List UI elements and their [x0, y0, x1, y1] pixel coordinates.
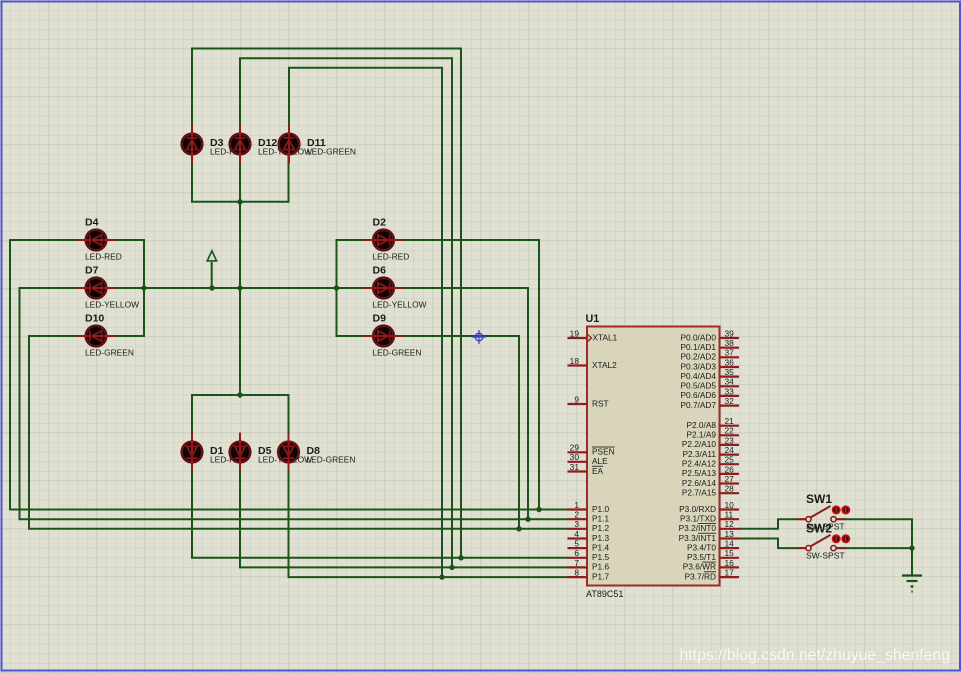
- svg-text:ALE: ALE: [592, 456, 608, 466]
- svg-text:P1.6: P1.6: [592, 562, 609, 572]
- svg-text:30: 30: [570, 452, 580, 462]
- U1 pin 7 P1.6: [568, 558, 610, 572]
- svg-text:17: 17: [725, 568, 735, 578]
- switch SW2 SW-SPST: [798, 521, 851, 560]
- svg-text:SW2: SW2: [806, 521, 832, 535]
- svg-text:P0.1/AD1: P0.1/AD1: [680, 342, 716, 352]
- svg-text:P2.2/A10: P2.2/A10: [682, 439, 717, 449]
- U1 pin 3 P1.2: [568, 519, 610, 533]
- svg-text:P3.1/TXD: P3.1/TXD: [680, 514, 716, 524]
- svg-text:P3.6/WR: P3.6/WR: [683, 562, 716, 572]
- svg-text:SW1: SW1: [806, 492, 832, 506]
- U1 pin 11 P3.1/TXD: [680, 510, 739, 524]
- U1 pin 32 P0.7/AD7: [680, 396, 739, 410]
- junction P1.5: [458, 555, 463, 560]
- svg-text:15: 15: [725, 548, 735, 558]
- svg-text:P2.3/A11: P2.3/A11: [682, 449, 716, 459]
- LED D5 (LED-YELLOW): [230, 433, 312, 472]
- svg-text:LED-RED: LED-RED: [373, 252, 410, 262]
- svg-text:3: 3: [574, 519, 579, 529]
- U1 pin 35 P0.4/AD4: [680, 367, 739, 381]
- U1 pin 36 P0.3/AD3: [680, 357, 739, 371]
- wire net P1.7: D11 cathode loop over top to x=442: [289, 68, 442, 577]
- svg-text:P0.0/AD0: P0.0/AD0: [680, 332, 716, 342]
- svg-text:P0.6/AD6: P0.6/AD6: [680, 390, 716, 400]
- svg-text:P3.0/RXD: P3.0/RXD: [679, 504, 716, 514]
- U1 pin 29 PSEN: [568, 443, 615, 457]
- svg-text:U1: U1: [586, 313, 600, 325]
- U1 pin 21 P2.0/A8: [686, 416, 739, 430]
- svg-text:26: 26: [725, 464, 735, 474]
- svg-text:33: 33: [725, 386, 735, 396]
- U1 pin 2 P1.1: [568, 510, 610, 524]
- svg-text:P1.3: P1.3: [592, 533, 609, 543]
- U1 pin 9 RST: [568, 394, 609, 408]
- U1 pin 4 P1.3: [568, 529, 610, 543]
- svg-text:34: 34: [725, 377, 735, 387]
- junction P1.2: [516, 526, 521, 531]
- U1 pin 14 P3.4/T0: [687, 539, 739, 553]
- svg-text:D10: D10: [85, 313, 104, 325]
- svg-text:LED-YELLOW: LED-YELLOW: [373, 300, 427, 310]
- U1 pin 12 P3.2/INT0: [679, 519, 739, 533]
- svg-text:18: 18: [570, 356, 580, 366]
- wire net GND: SW1 output to ground rail: [846, 519, 912, 575]
- svg-text:13: 13: [725, 529, 735, 539]
- svg-text:AT89C51: AT89C51: [586, 589, 623, 599]
- svg-text:P0.5/AD5: P0.5/AD5: [680, 381, 716, 391]
- wire net P1.1: D7 cathode to U1 pin 2: [20, 288, 568, 519]
- LED D12 (LED-YELLOW): [230, 125, 312, 164]
- svg-text:P2.4/A12: P2.4/A12: [682, 459, 717, 469]
- LED D9 (LED-GREEN): [364, 313, 421, 358]
- U1 pin 18 XTAL2: [568, 356, 618, 370]
- wire net P1.2: D9 cathode drop x=517.5: [394, 336, 519, 529]
- svg-text:28: 28: [725, 484, 735, 494]
- svg-text:SW-SPST: SW-SPST: [806, 551, 845, 561]
- svg-text:14: 14: [725, 539, 735, 549]
- svg-text:38: 38: [725, 338, 735, 348]
- U1 pin 5 P1.4: [568, 539, 610, 553]
- svg-text:XTAL2: XTAL2: [592, 360, 617, 370]
- wire net P1.7: D8 cathode to U1 pin 8: [289, 463, 568, 577]
- svg-text:19: 19: [570, 328, 580, 338]
- svg-text:1: 1: [574, 500, 579, 510]
- wire net VCC: top node bus y=202 for D3/D12/D11 anodes: [192, 155, 289, 202]
- junction P1.1: [525, 517, 530, 522]
- svg-text:11: 11: [725, 510, 734, 520]
- svg-text:D7: D7: [85, 265, 99, 277]
- svg-text:P2.0/A8: P2.0/A8: [686, 420, 716, 430]
- svg-text:39: 39: [725, 328, 735, 338]
- LED D10 (LED-GREEN): [77, 313, 134, 358]
- svg-text:PSEN: PSEN: [592, 447, 615, 457]
- svg-text:P3.3/INT1: P3.3/INT1: [679, 533, 717, 543]
- U1 pin 8 P1.7: [568, 568, 610, 582]
- svg-text:P3.7/RD: P3.7/RD: [685, 571, 716, 581]
- junction P1.7: [439, 574, 444, 579]
- wire net P1.6: D5 cathode to U1 pin 7: [240, 463, 568, 567]
- svg-text:P3.4/T0: P3.4/T0: [687, 542, 716, 552]
- svg-text:P0.3/AD3: P0.3/AD3: [680, 361, 716, 371]
- svg-text:29: 29: [570, 443, 580, 453]
- LED D6 (LED-YELLOW): [364, 265, 427, 310]
- U1 pin 16 P3.6/WR: [683, 558, 739, 572]
- wire net P1.6: D12 cathode loop over top to x=452: [240, 58, 452, 567]
- svg-text:23: 23: [725, 435, 735, 445]
- U1 pin 22 P2.1/A9: [686, 426, 739, 440]
- svg-text:24: 24: [725, 445, 735, 455]
- svg-text:P0.7/AD7: P0.7/AD7: [680, 400, 716, 410]
- svg-text:P0.2/AD2: P0.2/AD2: [680, 352, 716, 362]
- U1 pin 15 P3.5/T1: [687, 548, 739, 562]
- junction VCC/D6: [334, 285, 339, 290]
- LED D3 (LED-RED): [182, 125, 247, 164]
- svg-text:37: 37: [725, 348, 735, 358]
- svg-text:25: 25: [725, 455, 735, 465]
- svg-text:8: 8: [574, 568, 579, 578]
- svg-text:XTAL1: XTAL1: [593, 332, 618, 342]
- junction VCC/D7: [141, 285, 146, 290]
- svg-text:35: 35: [725, 367, 735, 377]
- LED D1 (LED-RED): [182, 433, 247, 472]
- U1 pin 1 P1.0: [568, 500, 610, 514]
- svg-text:D4: D4: [85, 217, 99, 229]
- svg-text:21: 21: [725, 416, 735, 426]
- svg-text:10: 10: [725, 500, 735, 510]
- junction VCC top node: [237, 199, 242, 204]
- LED D7 (LED-YELLOW): [77, 265, 140, 310]
- wire net P1.0: D2 cathode drop x=539: [394, 240, 539, 510]
- svg-text:P1.0: P1.0: [592, 504, 609, 514]
- LED D8 (LED-GREEN): [278, 433, 355, 472]
- node marker (blue origin cross): [472, 330, 486, 344]
- svg-text:P1.7: P1.7: [592, 571, 609, 581]
- svg-text:16: 16: [725, 558, 735, 568]
- switch SW1 SW-SPST: [798, 492, 851, 532]
- svg-text:7: 7: [574, 558, 579, 568]
- wire net P1.5: D1 cathode to U1 pin 6: [192, 463, 568, 558]
- svg-text:12: 12: [725, 519, 735, 529]
- wire net INT1: U1 pin 13 to SW2: [739, 539, 798, 549]
- svg-text:4: 4: [574, 529, 579, 539]
- ground: [902, 576, 922, 592]
- svg-text:LED-GREEN: LED-GREEN: [307, 455, 356, 465]
- svg-text:P2.1/A9: P2.1/A9: [686, 430, 716, 440]
- U1 pin 13 P3.3/INT1: [679, 529, 739, 543]
- U1 pin 30 ALE: [568, 452, 609, 466]
- svg-text:P1.1: P1.1: [592, 514, 609, 524]
- junction P1.6: [449, 565, 454, 570]
- U1 pin 39 P0.0/AD0: [680, 328, 739, 342]
- wire net P1.1: D6 cathode drop x=528: [394, 288, 528, 519]
- svg-text:LED-GREEN: LED-GREEN: [373, 348, 422, 358]
- wire net INT0: U1 pin 12 to SW1: [739, 519, 798, 529]
- wire net VCC: bottom node bus y=395 for D1/D5/D8 anodes: [192, 395, 289, 441]
- junction VCC bottom node: [237, 392, 242, 397]
- U1 pin 24 P2.3/A11: [682, 445, 739, 459]
- svg-text:31: 31: [570, 462, 580, 472]
- svg-text:6: 6: [574, 548, 579, 558]
- wire net P1.5: D3 cathode loop over top to x=461: [192, 49, 461, 558]
- svg-text:D9: D9: [373, 313, 387, 325]
- svg-text:P2.6/A14: P2.6/A14: [682, 478, 717, 488]
- svg-text:P3.2/INT0: P3.2/INT0: [679, 523, 717, 533]
- U1 pin 28 P2.7/A15: [682, 484, 739, 498]
- svg-text:https://blog.csdn.net/zhuyue_s: https://blog.csdn.net/zhuyue_shenfeng: [680, 647, 951, 664]
- svg-text:LED-GREEN: LED-GREEN: [307, 147, 356, 157]
- wire net P1.2: D10 cathode to U1 pin 3: [29, 336, 568, 529]
- svg-text:D6: D6: [373, 265, 387, 277]
- power terminal VCC: [207, 251, 216, 289]
- svg-text:2: 2: [574, 510, 579, 520]
- svg-text:36: 36: [725, 357, 735, 367]
- U1 pin 31 EA: [568, 462, 604, 476]
- U1 pin 38 P0.1/AD1: [680, 338, 739, 352]
- U1 pin 23 P2.2/A10: [682, 435, 739, 449]
- svg-text:P2.5/A13: P2.5/A13: [682, 468, 717, 478]
- wire net P1.0: D4 cathode to U1 pin 1: [10, 240, 568, 510]
- svg-text:RST: RST: [592, 398, 609, 408]
- U1 pin 27 P2.6/A14: [682, 474, 739, 488]
- svg-text:EA: EA: [592, 466, 604, 476]
- LED D2 (LED-RED): [364, 217, 409, 262]
- wire net VCC: left riser x=144 joining D4/D7/D10 anodes: [107, 240, 145, 336]
- svg-text:P1.4: P1.4: [592, 542, 609, 552]
- svg-text:P1.2: P1.2: [592, 523, 609, 533]
- U1 pin 34 P0.5/AD5: [680, 377, 739, 391]
- junction GND: [909, 545, 914, 550]
- junction VCC/central: [237, 285, 242, 290]
- svg-text:P3.5/T1: P3.5/T1: [687, 552, 716, 562]
- svg-text:LED-YELLOW: LED-YELLOW: [85, 300, 139, 310]
- U1 pin 10 P3.0/RXD: [679, 500, 739, 514]
- U1 pin 17 P3.7/RD: [685, 568, 739, 582]
- wire net VCC: mid horizontal bus y=288: [107, 287, 374, 289]
- LED D11 (LED-GREEN): [279, 125, 356, 164]
- svg-text:P2.7/A15: P2.7/A15: [682, 488, 717, 498]
- svg-text:32: 32: [725, 396, 735, 406]
- svg-text:P1.5: P1.5: [592, 552, 609, 562]
- microcontroller U1 AT89C51 body: [587, 327, 720, 586]
- U1 pin 19 XTAL1: [568, 328, 618, 342]
- svg-text:22: 22: [725, 426, 735, 436]
- wire net GND: SW2 output: [846, 547, 912, 549]
- svg-text:LED-GREEN: LED-GREEN: [85, 348, 134, 358]
- svg-text:9: 9: [574, 394, 579, 404]
- svg-text:5: 5: [574, 539, 579, 549]
- junction VCC/terminal: [209, 285, 214, 290]
- U1 pin 26 P2.5/A13: [682, 464, 739, 478]
- LED D4 (LED-RED): [77, 217, 122, 262]
- svg-text:LED-RED: LED-RED: [85, 252, 122, 262]
- U1 pin 6 P1.5: [568, 548, 610, 562]
- U1 pin 25 P2.4/A12: [682, 455, 739, 469]
- wire net VCC: central vertical x=240: [239, 155, 241, 395]
- junction P1.0: [536, 507, 541, 512]
- U1 pin 37 P0.2/AD2: [680, 348, 739, 362]
- U1 pin 33 P0.6/AD6: [680, 386, 739, 400]
- wire net VCC: right riser x=336.5 joining D2/D6/D9 anodes: [337, 240, 374, 336]
- svg-text:27: 27: [725, 474, 735, 484]
- svg-text:P0.4/AD4: P0.4/AD4: [680, 371, 716, 381]
- svg-text:D2: D2: [373, 217, 387, 229]
